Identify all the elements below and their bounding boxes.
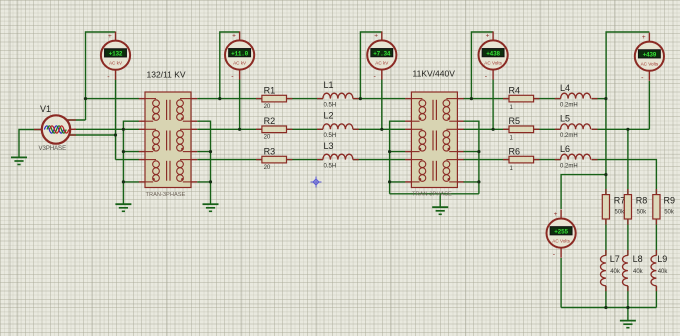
svg-text:TRAN-3PHASE: TRAN-3PHASE: [412, 192, 452, 198]
svg-text:R6: R6: [509, 146, 521, 156]
svg-text:AC kV: AC kV: [109, 61, 123, 66]
svg-text:R3: R3: [264, 146, 276, 156]
wire row1 TR2 secondary to R4: [463, 98, 509, 100]
wire row3 TR2 secondary to R6: [463, 159, 509, 161]
transformer TR2 (TRAN-3PHASE): [405, 92, 463, 188]
wire row3 R6 to L6: [530, 159, 561, 161]
resistor R9: [653, 189, 660, 225]
svg-text:50k: 50k: [637, 209, 648, 215]
svg-text:0.2mH: 0.2mH: [560, 163, 578, 169]
inductor L6: [555, 154, 598, 159]
3-phase source V1: [34, 115, 76, 143]
svg-text:AC kV: AC kV: [233, 60, 247, 65]
inductor L4: [555, 93, 598, 98]
svg-text:+: +: [486, 33, 490, 40]
resistor R6: [503, 156, 540, 163]
transformer TR1 (TRAN-3PHASE): [139, 92, 197, 188]
origin marker (blue crosshair): [311, 177, 322, 188]
svg-text:L2: L2: [324, 111, 334, 121]
svg-text:R9: R9: [664, 195, 676, 205]
svg-text:AC kV: AC kV: [375, 60, 389, 65]
svg-text:L7: L7: [610, 254, 620, 264]
voltmeter M5 AC Volt reading +439: [635, 33, 664, 82]
wire row2 L2 to TR2 primary w2 top: [353, 128, 406, 130]
wire TR2 secondary neutral, winding bottoms to common ground: [463, 121, 479, 194]
svg-text:11KV/440V: 11KV/440V: [413, 69, 456, 79]
svg-text:1: 1: [510, 105, 514, 111]
svg-text:1: 1: [510, 166, 514, 172]
svg-text:0.5H: 0.5H: [324, 102, 337, 108]
svg-text:+: +: [642, 34, 646, 41]
wire meter M6 - drop to bottom bus: [560, 258, 562, 308]
svg-text:V3PHASE: V3PHASE: [39, 146, 67, 152]
wire row2 L5 to meter M5 - corner: [592, 128, 650, 130]
svg-text:+11.0: +11.0: [231, 50, 249, 57]
wire row1 L1 to TR2 primary w1 top: [353, 98, 406, 100]
wire meter M5 - drop to row2: [648, 81, 650, 129]
inductor L1: [317, 93, 359, 98]
wire meter M3 + tap riser at x=360.4: [360, 32, 381, 99]
resistor R7: [602, 189, 609, 225]
inductor L9: [651, 250, 656, 291]
svg-text:20: 20: [264, 165, 271, 171]
wire row3 TR1 secondary to R3: [197, 159, 262, 161]
wire TR2 primary neutral, winding bottoms to common ground: [390, 121, 406, 194]
wire R9 to L9: [655, 219, 657, 256]
ground TR1 secondary neutral: [203, 204, 219, 211]
voltmeter M4 AC Volt reading +438: [479, 31, 508, 80]
wire row1 bus, source junction to TR1 primary w1 top: [86, 98, 140, 100]
svg-text:+255: +255: [554, 228, 568, 235]
resistor R2: [256, 126, 292, 133]
svg-text:-: -: [485, 74, 488, 81]
wire R8 to L8: [627, 219, 629, 256]
svg-text:TRAN-3PHASE: TRAN-3PHASE: [146, 192, 186, 198]
inductor L8: [623, 250, 628, 291]
svg-text:+: +: [108, 33, 112, 40]
wire row2 bus, source pin2 to TR1 primary w2 top: [74, 128, 139, 130]
svg-text:L4: L4: [560, 83, 570, 93]
ground TR2 common neutral: [432, 207, 448, 214]
svg-text:V1: V1: [40, 104, 51, 114]
svg-text:L6: L6: [560, 144, 570, 154]
inductor L7: [601, 250, 606, 291]
voltmeter M2 AC kV reading +11.0: [225, 31, 254, 80]
svg-text:40k: 40k: [658, 269, 669, 275]
wire row3 source phase3 jog to TR1 primary w3 top: [69, 135, 139, 160]
svg-text:-: -: [231, 74, 234, 81]
voltmeter M3 AC kV reading +7.34: [367, 31, 396, 80]
wire row2 TR2 secondary to R5: [463, 128, 509, 130]
wire meter M6 + tap to R7 column: [561, 175, 606, 209]
wire bottom bus: [561, 307, 656, 309]
svg-text:-: -: [553, 252, 556, 259]
ground TR1 primary neutral: [115, 204, 131, 211]
svg-text:-: -: [107, 74, 110, 81]
svg-text:+: +: [232, 33, 236, 40]
voltmeter M1 AC kV reading +132: [101, 32, 130, 81]
wire row1 L4 to R7 column: [592, 98, 606, 100]
svg-text:R2: R2: [264, 116, 276, 126]
wire source pin1 up to row1: [66, 119, 85, 121]
svg-text:+439: +439: [643, 52, 657, 59]
voltmeter M6 AC Volt reading +255: [547, 210, 576, 259]
wire R7 column from row1: [605, 99, 607, 195]
svg-text:0.2mH: 0.2mH: [560, 133, 578, 139]
svg-text:+7.34: +7.34: [373, 50, 391, 57]
svg-text:20: 20: [264, 135, 271, 141]
svg-text:20: 20: [264, 104, 271, 110]
svg-text:L9: L9: [657, 254, 667, 264]
ground at source: [11, 157, 27, 164]
svg-text:0.5H: 0.5H: [324, 133, 337, 139]
wire meter M2 - drop to row2: [239, 80, 241, 130]
inductor L3: [317, 154, 359, 159]
wire meter M4 + tap riser at x=471.4: [471, 32, 493, 99]
svg-text:R8: R8: [636, 195, 648, 205]
svg-text:0.2mH: 0.2mH: [560, 102, 578, 108]
svg-text:-: -: [374, 74, 377, 81]
svg-text:-: -: [641, 75, 644, 82]
svg-text:R7: R7: [614, 195, 626, 205]
wire L7 to bottom bus: [605, 286, 607, 308]
svg-text:L1: L1: [324, 80, 334, 90]
resistor R1: [256, 95, 292, 102]
wire row1 TR1 secondary to R1: [197, 98, 262, 100]
wire meter M1 - drop from meter bottom to phase3 jog: [115, 80, 117, 160]
wire meter M2 + tap riser at x=219.8: [220, 32, 240, 99]
svg-text:132/11 KV: 132/11 KV: [147, 70, 186, 80]
svg-text:AC Volts: AC Volts: [552, 238, 570, 243]
svg-text:50k: 50k: [664, 209, 675, 215]
resistor R8: [624, 189, 631, 225]
svg-text:AC Volts: AC Volts: [641, 62, 659, 67]
wire L9 to bottom bus: [655, 286, 657, 308]
svg-text:+438: +438: [486, 50, 500, 57]
wire meter M3 - drop to row2: [381, 80, 383, 130]
wire row2 R5 to L5: [530, 128, 561, 130]
svg-text:L5: L5: [560, 114, 570, 124]
svg-text:AC Volts: AC Volts: [484, 60, 502, 65]
resistor R5: [503, 126, 540, 133]
wire TR1 primary neutral, winding bottoms to ground: [123, 121, 139, 204]
svg-text:50k: 50k: [615, 209, 626, 215]
ground bottom bus: [620, 321, 636, 328]
svg-text:0.5H: 0.5H: [324, 163, 337, 169]
wire TR2 neutral bottom run and ground drop: [390, 194, 479, 207]
wire TR1 secondary neutral, winding bottoms to ground: [197, 121, 210, 204]
wire row3 L3 to TR2 primary w3 top: [353, 159, 406, 161]
wire source V1 to ground: [19, 130, 42, 158]
wire row2 TR1 secondary to R2: [197, 128, 262, 130]
svg-text:R5: R5: [509, 116, 521, 126]
svg-text:L3: L3: [324, 141, 334, 151]
svg-text:40k: 40k: [633, 269, 644, 275]
inductor L2: [317, 124, 359, 129]
inductor L5: [555, 124, 598, 129]
svg-text:+: +: [374, 33, 378, 40]
svg-text:L8: L8: [633, 254, 643, 264]
wire row1 R1 to L1: [287, 98, 323, 100]
svg-text:+: +: [554, 211, 558, 218]
wire row2 R2 to L2: [287, 128, 323, 130]
wire row3 L6 to R9 column with corner down: [592, 160, 657, 195]
wire R7 to L7: [605, 219, 607, 256]
wire row3 R3 to L3: [287, 159, 323, 161]
svg-text:R4: R4: [509, 85, 521, 95]
wire meter M5 + tap riser at x=606.1: [606, 32, 649, 99]
wire R8 column from row2: [627, 129, 629, 194]
resistor R4: [503, 95, 540, 102]
wire row1 R4 to L4: [530, 98, 561, 100]
wire L8 to bottom bus: [627, 286, 629, 308]
resistor R3: [256, 156, 292, 163]
svg-text:+132: +132: [109, 51, 123, 58]
wire meter M1 + tap: top horizontal and riser at x=85.5: [86, 32, 116, 120]
svg-text:40k: 40k: [610, 269, 621, 275]
svg-text:R1: R1: [264, 85, 276, 95]
wire bottom bus ground drop: [627, 308, 629, 321]
wire meter M4 - drop to row2: [492, 80, 494, 130]
svg-text:1: 1: [510, 136, 514, 142]
